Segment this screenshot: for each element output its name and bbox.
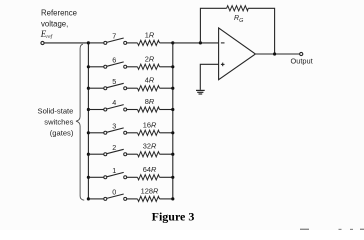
svg-text:6: 6 [112, 55, 116, 64]
output terminal [300, 52, 303, 55]
wire: switch 7 to resistor 1R [127, 42, 138, 44]
resistor 2R [138, 64, 160, 69]
input terminal Eref [41, 41, 44, 44]
resistor 4R [138, 86, 160, 91]
svg-text:8R: 8R [145, 97, 155, 106]
resistor 64R [138, 175, 160, 180]
wire: switch 3 to resistor 16R [127, 132, 138, 134]
wire: switch 2 to resistor 32R [127, 153, 138, 155]
junction dot: feedback tap at inverting input [199, 41, 202, 44]
wire: non-inverting input to ground [200, 64, 218, 90]
junction dot: left bus row bit 6 [87, 65, 90, 68]
wire: left bus to switch 7 [88, 42, 103, 44]
label: Solid-state switches (gates) [38, 107, 74, 138]
svg-text:2: 2 [112, 143, 116, 152]
wire: resistor 128R to right bus [160, 198, 173, 200]
svg-text:32R: 32R [143, 142, 157, 151]
switch 4 (solid-state gate) [104, 105, 127, 111]
label: Reference voltage, Eref [40, 9, 77, 41]
junction dot: left bus row bit 0 [87, 197, 90, 200]
wire: resistor 4R to right bus [160, 87, 173, 89]
resistor 32R [138, 152, 160, 157]
wire: switch 1 to resistor 64R [127, 176, 138, 178]
wire: Eref terminal to left bus node A [44, 42, 88, 44]
wire: left bus to switch 1 [88, 176, 103, 178]
switch 1 (solid-state gate) [104, 172, 127, 178]
svg-text:0: 0 [112, 188, 116, 197]
svg-text:64R: 64R [143, 165, 157, 174]
wire: resistor 8R to right bus [160, 109, 173, 111]
wire: resistor 1R to right bus [160, 42, 173, 44]
ground [196, 90, 205, 94]
junction dot: right bus row bit 5 [171, 87, 174, 90]
svg-text:4: 4 [112, 98, 116, 107]
junction dot: left bus row bit 3 [87, 131, 90, 134]
junction dot: left bus row bit 4 [87, 108, 90, 111]
svg-text:16R: 16R [143, 120, 157, 129]
switch 5 (solid-state gate) [104, 83, 127, 89]
svg-text:(gates): (gates) [50, 128, 74, 137]
switch 0 (solid-state gate) [104, 194, 127, 200]
wire: resistor 2R to right bus [160, 66, 173, 68]
switch 7 (solid-state gate) [104, 38, 127, 44]
svg-text:3: 3 [112, 121, 116, 130]
wire: switch 6 to resistor 2R [127, 66, 138, 68]
svg-text:switches: switches [44, 118, 73, 127]
junction dot: left bus row bit 2 [87, 153, 90, 156]
junction dot: right bus row bit 3 [171, 131, 174, 134]
svg-text:Figure 3: Figure 3 [152, 210, 195, 224]
wire: feedback loop up and over [200, 8, 226, 43]
svg-text:128R: 128R [141, 186, 159, 195]
wire: switch 5 to resistor 4R [127, 87, 138, 89]
brace: solid-state switches group [76, 44, 84, 200]
svg-text:1R: 1R [145, 30, 155, 39]
wire: switch 4 to resistor 8R [127, 109, 138, 111]
wire: resistor 16R to right bus [160, 132, 173, 134]
svg-text:7: 7 [112, 32, 116, 41]
wire: resistor 64R to right bus [160, 176, 173, 178]
junction dot: output/feedback node [273, 52, 276, 55]
svg-text:Solid-state: Solid-state [38, 107, 74, 116]
junction dot: right bus row bit 4 [171, 108, 174, 111]
junction dot: right bus row bit 1 [171, 176, 174, 179]
wire: left bus to switch 0 [88, 198, 103, 200]
svg-text:RG: RG [234, 15, 244, 24]
wire: feedback loop over and down to output [248, 8, 274, 54]
svg-text:1: 1 [112, 166, 116, 175]
junction dot: right bus row bit 6 [171, 65, 174, 68]
wire: right bus (vertical summing net) [172, 43, 174, 199]
resistor RG (feedback) [227, 6, 249, 11]
junction dot: left bus row bit 7 [87, 41, 90, 44]
op-amp U1 [219, 28, 256, 80]
wire: switch 0 to resistor 128R [127, 198, 138, 200]
wire: left bus to switch 5 [88, 87, 103, 89]
svg-text:4R: 4R [145, 76, 155, 85]
resistor 8R [138, 107, 160, 112]
svg-text:5: 5 [112, 77, 116, 86]
junction dot: right bus row bit 7 [171, 41, 174, 44]
wire: op-amp output to terminal [255, 53, 299, 55]
junction dot: left bus row bit 1 [87, 176, 90, 179]
svg-text:Reference: Reference [41, 9, 77, 18]
wire: left bus (vertical) [87, 43, 89, 199]
junction dot: left bus row bit 5 [87, 87, 90, 90]
resistor 16R [138, 130, 160, 135]
svg-text:2R: 2R [145, 54, 155, 63]
junction dot: right bus row bit 2 [171, 153, 174, 156]
wire: left bus to switch 4 [88, 109, 103, 111]
wire: left bus to switch 2 [88, 153, 103, 155]
switch 6 (solid-state gate) [104, 62, 127, 68]
switch 2 (solid-state gate) [104, 149, 127, 155]
resistor 128R [138, 196, 160, 201]
svg-text:voltage,: voltage, [41, 19, 68, 28]
artifact: cut-off text at bottom edge [300, 229, 364, 230]
wire: right bus to op-amp inverting input [173, 42, 219, 44]
wire: resistor 32R to right bus [160, 153, 173, 155]
svg-text:Output: Output [291, 56, 313, 65]
junction dot: right bus row bit 0 [171, 197, 174, 200]
switch 3 (solid-state gate) [104, 128, 127, 134]
svg-text:Eref: Eref [40, 29, 54, 40]
resistor 1R [138, 40, 160, 45]
wire: left bus to switch 6 [88, 66, 103, 68]
wire: left bus to switch 3 [88, 132, 103, 134]
